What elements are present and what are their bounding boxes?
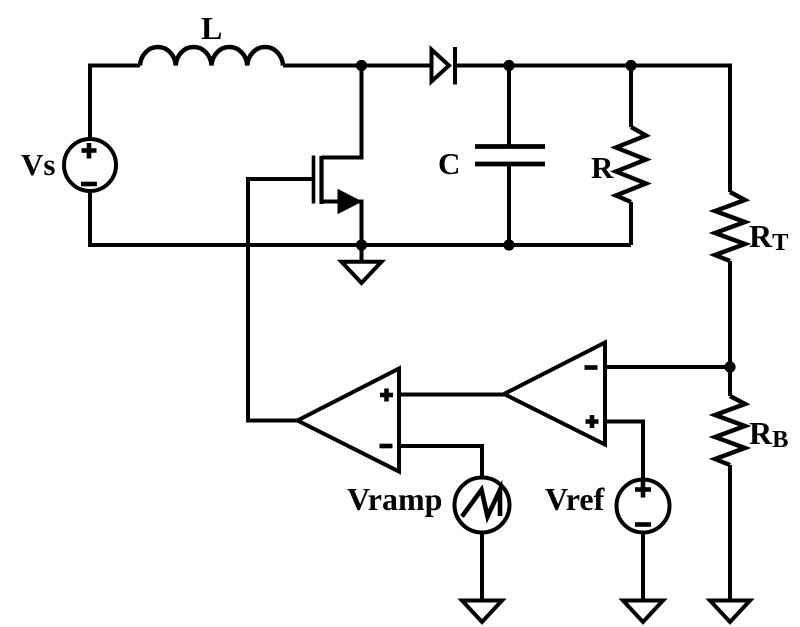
- right branch wire top: [728, 66, 730, 193]
- capacitor C plates: [475, 147, 545, 165]
- ground below Vref: [623, 601, 663, 623]
- wire inductor to diode: [283, 64, 431, 68]
- svg-text:Vs: Vs: [21, 147, 55, 182]
- node feedback junction dot: [724, 361, 735, 372]
- node capacitor-R junction dot: [625, 60, 636, 71]
- ground below RB: [710, 601, 750, 623]
- wire Vs bottom to bottom rail: [88, 191, 92, 247]
- node capacitor-rail junction dot: [503, 239, 514, 250]
- transistor Q1 source wire: [322, 202, 362, 246]
- transistor Q1 (MOSFET) gate bar: [312, 156, 316, 204]
- resistor RT zigzag: [715, 192, 745, 261]
- gate wire to comparator output: [248, 179, 314, 421]
- op-amp U1 minus label: [380, 444, 393, 449]
- Vramp sawtooth symbol: [462, 490, 500, 517]
- svg-text:Vramp: Vramp: [347, 481, 442, 517]
- wire diode to top-right corner: [455, 64, 730, 68]
- svg-text:RB: RB: [749, 415, 788, 453]
- op-amp U1 minus input wire to Vramp: [399, 446, 482, 477]
- svg-text:RT: RT: [749, 218, 788, 256]
- wire Vref to ground: [641, 533, 645, 603]
- wire Vramp to ground: [480, 533, 484, 603]
- ground below Vramp: [462, 601, 502, 623]
- resistor R zigzag: [616, 127, 646, 202]
- wire top-left from Vs to inductor: [90, 66, 140, 140]
- capacitor C top wire: [507, 66, 511, 147]
- op-amp U2 plus input wire to Vref: [605, 422, 643, 479]
- node diode-capacitor junction dot: [503, 60, 514, 71]
- transistor Q1 source arrow: [340, 192, 359, 211]
- resistor RB zigzag: [715, 396, 745, 465]
- node source-rail junction dot: [356, 239, 367, 250]
- svg-text:L: L: [201, 10, 222, 46]
- op-amp U2 (error amplifier): [504, 343, 605, 445]
- op-amp U2 output wire: [399, 393, 504, 397]
- diode D: [432, 47, 456, 85]
- resistor R bottom wire: [629, 202, 633, 245]
- node inductor-drain junction dot: [356, 60, 367, 71]
- transistor Q1 drain wire: [322, 66, 362, 158]
- wire feedback node to opamp2 minus input: [605, 365, 730, 369]
- wire RB to ground: [728, 465, 732, 602]
- svg-text:C: C: [438, 146, 460, 181]
- bottom rail wire: [88, 243, 631, 247]
- op-amp U1 plus label: [380, 389, 393, 402]
- voltage source Vs: [64, 139, 116, 191]
- inductor L: [140, 47, 283, 65]
- ground under MOSFET: [342, 245, 382, 283]
- resistor R top wire: [629, 66, 633, 128]
- source Vref: [617, 480, 670, 533]
- svg-text:Vref: Vref: [545, 481, 605, 517]
- wire RT to RB: [728, 261, 732, 396]
- op-amp U2 plus label: [586, 415, 599, 428]
- op-amp U2 minus label: [585, 365, 598, 370]
- source Vramp: [455, 478, 510, 533]
- transistor Q1 channel bar: [319, 156, 323, 204]
- capacitor C bottom wire: [507, 164, 511, 245]
- op-amp U1 (PWM comparator): [298, 369, 400, 472]
- svg-text:R: R: [591, 150, 614, 185]
